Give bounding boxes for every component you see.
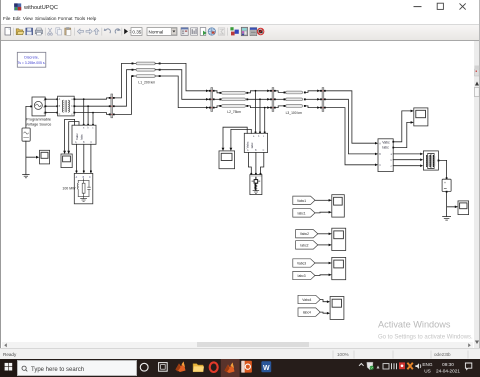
wire Iabc1 to scope6 (315, 211, 329, 214)
three-phase V-I measurement VI1 (72, 125, 96, 144)
opera (210, 362, 218, 372)
back fwd up arrows (disabled) (77, 28, 99, 34)
gray tray icons (377, 365, 380, 368)
L2 port dots (219, 92, 248, 107)
undo redo (105, 28, 120, 33)
STATUS BAR (0, 348, 480, 360)
arrowheads into scope2 (63, 151, 66, 154)
From tag Vabc2 (296, 230, 318, 238)
ground G1 (23, 175, 30, 178)
colored icons (230, 27, 238, 35)
cut (disabled) (48, 28, 53, 35)
svg-text:C: C (379, 164, 381, 167)
From tag Iabc4 (298, 308, 320, 316)
wires transformer to bus1 with jogs (74, 98, 109, 115)
ground G2 (443, 217, 451, 221)
wires L3 to bus4 (306, 91, 320, 108)
svg-text:Iabc3: Iabc3 (298, 274, 306, 278)
VI1 outputs down to load1 (77, 144, 91, 172)
svg-text:Iabc: Iabc (382, 146, 389, 150)
task view (159, 362, 168, 371)
wires bus1 up to line L1 (115, 63, 136, 114)
new doc (5, 27, 11, 34)
wire Vabc3 to scope8 (315, 262, 329, 264)
bus bar B3 (267, 88, 276, 112)
scope9 (330, 297, 344, 320)
wire source left port to measurement (26, 106, 32, 128)
start button (0, 359, 17, 377)
svg-text:Vabc: Vabc (382, 140, 390, 144)
svg-text:Iabc4: Iabc4 (303, 311, 311, 315)
wire VM2 down, branch to scope5 and ground (447, 192, 455, 217)
TASKBAR (0, 359, 480, 377)
distributed line L2 segments (222, 92, 246, 108)
WATERMARK (375, 314, 480, 346)
svg-text:Iabc1: Iabc1 (298, 211, 306, 215)
From tag Vabc3 (293, 259, 315, 267)
scope2 (61, 154, 72, 168)
save (26, 28, 33, 35)
wire Vabc2 to scope7 (318, 233, 329, 235)
VI2 outputs down to load2 (248, 153, 263, 175)
orange office icon (241, 361, 252, 373)
L1 port dots (132, 63, 161, 78)
MENU BAR (0, 13, 480, 25)
svg-text:Programmable: Programmable (26, 118, 51, 122)
voltage measurement block VM1 (22, 128, 30, 141)
svg-text:Discrete,: Discrete, (24, 56, 39, 60)
three-phase V-I measurement VI3 (378, 139, 393, 172)
three-phase series RLC load LOAD2 (250, 175, 262, 195)
word icon (261, 361, 271, 372)
bus bar B1 (109, 94, 115, 118)
svg-text:L2_75km: L2_75km (227, 110, 241, 114)
wires VI3 abc to load3 (393, 154, 420, 166)
three-phase transformer T1 (58, 96, 75, 116)
scope3 (219, 151, 235, 169)
wire Iabc2 to scope7 (318, 244, 329, 246)
distributed line L3 segments (286, 91, 303, 107)
speaker (415, 363, 420, 369)
three-phase series RLC load LOAD3 (423, 151, 438, 170)
svg-text:Vabc2: Vabc2 (300, 232, 309, 236)
VI2 measurement outputs to scope3 (223, 127, 251, 148)
svg-text:Vabc1: Vabc1 (297, 199, 306, 203)
tap wires down to VI2 (256, 91, 265, 133)
VI1 measurement outputs to scope2 (65, 119, 79, 152)
copy (disabled) (56, 27, 62, 34)
wires L2 to bus3 (248, 91, 270, 108)
svg-text:Iabc2: Iabc2 (300, 243, 308, 247)
programmable voltage source U1 (32, 97, 46, 116)
wires bus3 to line L3 (276, 91, 286, 108)
svg-text:100 MW: 100 MW (62, 186, 76, 190)
folder (193, 363, 204, 371)
normal dropdown (147, 27, 177, 35)
cortana ring (140, 363, 148, 371)
open (16, 28, 24, 34)
svg-text:+: + (444, 181, 446, 185)
svg-text:Vabc3: Vabc3 (297, 261, 306, 265)
svg-text:L3_100 km: L3_100 km (286, 111, 303, 115)
notification (465, 363, 471, 370)
bus bar B2 (206, 88, 215, 112)
svg-text:L1_200 km: L1_200 km (138, 80, 155, 84)
wires bus2 to line L2 (215, 91, 222, 108)
scope8 (332, 257, 346, 279)
bus bar B4 (317, 88, 326, 112)
svg-text:Iabc: Iabc (250, 142, 254, 148)
three-phase V-I measurement VI2 (244, 133, 267, 152)
svg-text:Vabc: Vabc (75, 133, 79, 140)
scope4 (414, 108, 428, 126)
right icon group (181, 27, 188, 35)
arrowhead into scope1 (36, 156, 39, 159)
wire VM1 down and branch to scope1 (26, 141, 36, 174)
tap wires down to VI1 (84, 99, 93, 125)
svg-text:Ts = 3.255e-005 s.: Ts = 3.255e-005 s. (18, 61, 46, 65)
wire load3 to VM2 (439, 160, 447, 178)
active app highlight + matlab icon 2 (221, 359, 240, 377)
VI3 measurement outputs to scope4 (393, 111, 410, 148)
From tag Iabc3 (293, 271, 315, 279)
svg-text:Voltage Source: Voltage Source (26, 122, 52, 126)
sim time field (131, 27, 142, 35)
voltage measurement VM2 (442, 179, 451, 191)
TOOLBAR (0, 25, 480, 42)
L3 port dots (284, 92, 306, 107)
TITLE BAR (0, 0, 480, 13)
wires bus4 to VI3 (326, 91, 375, 165)
tray chevron (359, 363, 364, 365)
svg-text:Vabc4: Vabc4 (302, 298, 311, 302)
VERTICAL SCROLLBAR (474, 41, 479, 348)
scope5 (458, 201, 469, 215)
wire Vabc1 to scope6 (315, 199, 329, 201)
scope1 (40, 150, 50, 164)
paste (65, 27, 71, 35)
From tag Iabc2 (296, 241, 318, 249)
scope7 (332, 228, 346, 250)
svg-text:Iabc: Iabc (80, 134, 84, 140)
powergui block (17, 52, 46, 67)
wires L1 down to bus2 (155, 63, 209, 107)
print (35, 28, 42, 35)
wire Vabc4 to scope9 (320, 300, 327, 302)
three-phase parallel RLC load LOAD1 (100 MW) (74, 173, 93, 203)
scope6 (332, 195, 345, 217)
wire Iabc3 to scope8 (315, 274, 329, 277)
From tag Vabc1 (293, 196, 315, 204)
HORIZONTAL SCROLLBAR (2, 342, 473, 349)
wires source to transformer (3 phases) (45, 99, 57, 112)
orange x icon (407, 363, 412, 369)
wire Iabc4 to scope9 (320, 312, 327, 313)
play + eq (124, 28, 128, 34)
shield (367, 362, 373, 370)
red icon (399, 362, 405, 369)
svg-text:Vabc: Vabc (246, 141, 250, 148)
matlab icon 1 (176, 361, 186, 372)
distributed line L1 segments (136, 62, 155, 77)
CANVAS (2, 41, 474, 341)
From tag Vabc4 (298, 295, 320, 303)
From tag Iabc1 (293, 209, 315, 217)
